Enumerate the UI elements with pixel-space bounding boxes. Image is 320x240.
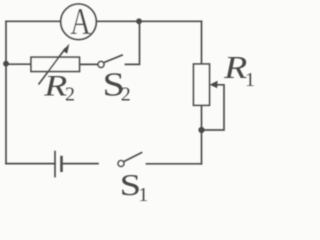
svg-text:1: 1 [138,184,148,203]
svg-text:1: 1 [245,69,255,91]
svg-text:R: R [223,50,247,85]
svg-text:2: 2 [65,84,75,106]
svg-text:2: 2 [121,83,131,105]
svg-text:A: A [70,1,91,43]
svg-text:R: R [43,70,67,103]
